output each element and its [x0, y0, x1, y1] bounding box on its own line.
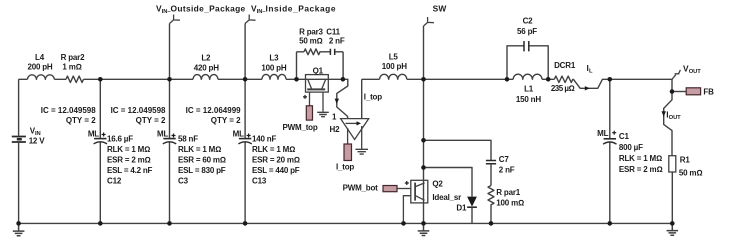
svg-text:I_top: I_top [364, 93, 382, 102]
svg-text:D1: D1 [456, 204, 467, 213]
inductor L4 [28, 75, 55, 79]
switch Q1 [306, 75, 329, 93]
inductor L2 [193, 75, 218, 80]
svg-text:Q1: Q1 [313, 67, 324, 76]
inductor L5 [380, 74, 407, 79]
svg-text:I_top: I_top [336, 163, 354, 172]
svg-text:200 pH: 200 pH [27, 63, 52, 72]
voltage source VIN 12V battery [12, 137, 26, 143]
svg-text:IC = 12.049598: IC = 12.049598 [41, 106, 96, 115]
svg-text:R par2: R par2 [61, 53, 85, 62]
svg-text:ML: ML [233, 130, 244, 139]
svg-text:H2: H2 [330, 125, 341, 134]
svg-text:L3: L3 [269, 53, 279, 62]
svg-text:ESL = 830 pF: ESL = 830 pF [178, 166, 226, 175]
svg-text:L4: L4 [35, 53, 45, 62]
svg-text:58 nF: 58 nF [178, 135, 198, 144]
svg-text:SW: SW [433, 4, 447, 14]
svg-text:ESR = 20 mΩ: ESR = 20 mΩ [252, 156, 300, 165]
svg-text:56 pF: 56 pF [517, 27, 537, 36]
svg-text:C12: C12 [107, 177, 122, 186]
svg-text:16.6 µF: 16.6 µF [107, 135, 133, 144]
net flag VOUT [672, 70, 680, 79]
svg-text:C13: C13 [252, 177, 267, 186]
svg-text:50 mΩ: 50 mΩ [299, 37, 322, 46]
resistor Rpar3 snubber [297, 49, 330, 79]
svg-text:PWM_top: PWM_top [283, 123, 318, 132]
wire triangle stubs [348, 126, 362, 149]
inductor L3 [262, 74, 286, 79]
svg-text:RLK = 1 MΩ: RLK = 1 MΩ [178, 145, 221, 154]
svg-text:2 nF: 2 nF [499, 165, 515, 174]
svg-text:C1: C1 [619, 132, 630, 141]
svg-text:100 mΩ: 100 mΩ [496, 199, 524, 208]
ground bottom left [13, 223, 25, 235]
junction dots middle [421, 138, 426, 143]
svg-text:C11: C11 [326, 28, 340, 37]
svg-text:ML: ML [597, 129, 608, 138]
wire Q2 gate return [403, 196, 410, 224]
net flag VIN-Outside_Package [170, 15, 180, 24]
current arrow IL [573, 79, 672, 91]
wire tap to D1 [424, 168, 473, 197]
svg-text:R par3: R par3 [299, 28, 323, 37]
wire VIN branch [18, 79, 20, 223]
net flag SW [423, 26, 425, 223]
capacitor C7 [486, 161, 496, 164]
svg-text:140 nF: 140 nF [252, 135, 276, 144]
svg-text:ML: ML [157, 130, 168, 139]
svg-text:R1: R1 [680, 156, 691, 165]
svg-text:1 mΩ: 1 mΩ [62, 63, 81, 72]
pin wires Q1 gate [310, 92, 324, 112]
svg-text:FB: FB [703, 88, 714, 97]
svg-text:IC = 12.064999: IC = 12.064999 [186, 106, 241, 115]
ground under Q1 [317, 112, 329, 116]
dependent source triangle [341, 119, 369, 140]
svg-text:PWM_bot: PWM_bot [343, 184, 379, 193]
ground bottom right [667, 223, 679, 235]
capacitor C11 snubber [330, 49, 334, 55]
diode D1 [467, 197, 477, 207]
svg-text:DCR1: DCR1 [554, 61, 576, 70]
wire top rail left section [19, 78, 343, 80]
svg-text:C2: C2 [523, 17, 534, 26]
svg-text:C7: C7 [499, 155, 510, 164]
svg-text:100 pH: 100 pH [382, 62, 407, 71]
svg-text:QTY = 2: QTY = 2 [136, 116, 166, 125]
svg-text:Q2: Q2 [432, 180, 443, 189]
svg-text:RLK = 1 MΩ: RLK = 1 MΩ [107, 145, 150, 154]
svg-text:RLK = 1 MΩ: RLK = 1 MΩ [619, 154, 662, 163]
port PWM_top [306, 106, 312, 120]
port FB [672, 91, 686, 93]
wire I_top node [362, 79, 380, 118]
svg-text:L5: L5 [389, 53, 399, 62]
inductor L1 [507, 74, 554, 79]
svg-text:ML: ML [88, 130, 99, 139]
capacitor C2 branch [507, 46, 548, 80]
port I_top [344, 144, 352, 161]
wire bottom rail [19, 222, 673, 224]
svg-text:ESR = 60 mΩ: ESR = 60 mΩ [178, 156, 226, 165]
switch Q2 [411, 180, 428, 203]
svg-text:ESR = 2 mΩ: ESR = 2 mΩ [619, 165, 663, 174]
svg-text:50 mΩ: 50 mΩ [679, 168, 702, 177]
svg-text:2 nF: 2 nF [329, 37, 345, 46]
svg-text:R par1: R par1 [496, 188, 520, 197]
junction dots top rail [98, 77, 103, 82]
resistor DCR1 [554, 76, 573, 82]
svg-text:L1: L1 [524, 85, 534, 94]
junction dots bottom rail [16, 221, 21, 226]
resistor Rpar1 [488, 186, 494, 224]
svg-text:QTY = 2: QTY = 2 [211, 116, 241, 125]
capacitor C3 column [169, 24, 171, 224]
svg-text:ESL = 440 pF: ESL = 440 pF [252, 166, 300, 175]
ground under Q2 [418, 223, 430, 235]
ground under triangle [355, 149, 368, 154]
svg-text:Ideal_sr: Ideal_sr [432, 193, 461, 202]
capacitor C12 column [99, 79, 101, 223]
svg-text:L2: L2 [201, 53, 211, 62]
svg-text:IC = 12.049598: IC = 12.049598 [111, 106, 166, 115]
resistor R1 box [669, 156, 676, 172]
resistor Rpar2 [66, 76, 84, 82]
capacitor C13 column [244, 24, 246, 224]
svg-text:ESR = 2 mΩ: ESR = 2 mΩ [107, 156, 151, 165]
svg-text:420 pH: 420 pH [194, 63, 219, 72]
svg-text:12 V: 12 V [29, 137, 46, 146]
net flag VIN-Inside_Package [245, 15, 255, 24]
svg-text:235 µΩ: 235 µΩ [551, 84, 575, 93]
svg-text:QTY = 2: QTY = 2 [66, 116, 96, 125]
svg-text:RLK = 1 MΩ: RLK = 1 MΩ [252, 145, 295, 154]
wire tap to C7 [424, 140, 492, 160]
svg-text:ESL = 4.2 nF: ESL = 4.2 nF [107, 166, 153, 175]
svg-text:100 pH: 100 pH [261, 63, 286, 72]
current arrow IOUT [664, 92, 672, 156]
svg-text:150 nH: 150 nH [516, 95, 541, 104]
arrow H2 down [335, 99, 339, 104]
current sense wire H2 [337, 79, 348, 118]
capacitor C1 column [609, 79, 611, 223]
svg-text:800 µF: 800 µF [619, 143, 643, 152]
svg-text:C3: C3 [178, 177, 189, 186]
